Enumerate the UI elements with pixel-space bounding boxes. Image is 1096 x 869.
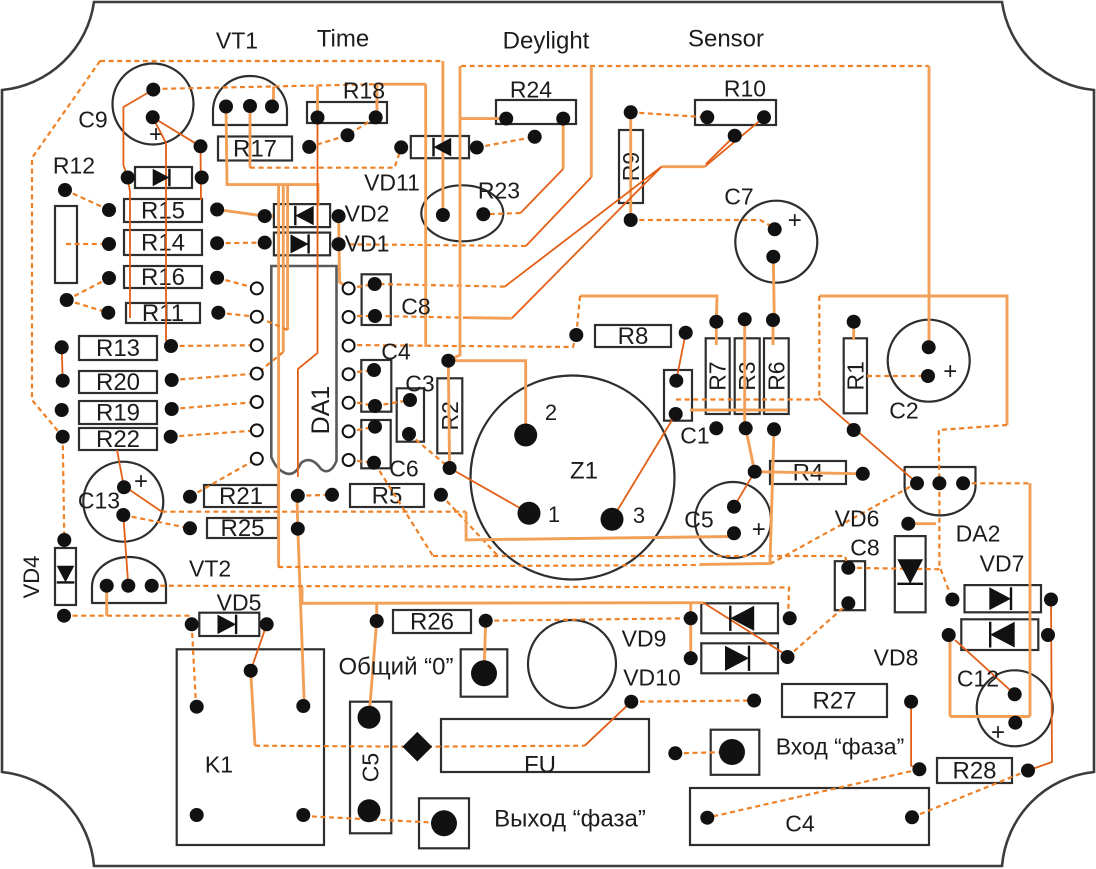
svg-text:R25: R25 — [220, 515, 264, 542]
svg-text:C8: C8 — [401, 293, 430, 319]
svg-text:VD5: VD5 — [217, 589, 262, 615]
svg-text:VD6: VD6 — [835, 505, 880, 531]
svg-text:+: + — [943, 358, 957, 385]
svg-text:R8: R8 — [618, 323, 649, 350]
svg-text:VT1: VT1 — [216, 27, 258, 53]
svg-text:VD9: VD9 — [622, 625, 667, 651]
svg-text:Time: Time — [317, 26, 369, 53]
svg-text:C9: C9 — [78, 106, 107, 132]
svg-text:Общий “0”: Общий “0” — [339, 654, 454, 681]
svg-text:+: + — [788, 207, 802, 234]
svg-text:+: + — [134, 468, 148, 495]
svg-text:+: + — [991, 719, 1005, 746]
svg-text:R1: R1 — [842, 361, 868, 390]
svg-text:+: + — [752, 516, 766, 543]
svg-text:K1: K1 — [205, 751, 233, 777]
svg-text:R13: R13 — [96, 335, 140, 362]
svg-text:R15: R15 — [141, 198, 185, 225]
svg-text:DA2: DA2 — [956, 520, 1001, 546]
svg-text:C3: C3 — [405, 370, 434, 396]
svg-text:R19: R19 — [96, 400, 140, 427]
svg-text:R23: R23 — [478, 177, 520, 203]
svg-text:C5: C5 — [684, 506, 713, 532]
svg-text:C1: C1 — [680, 422, 709, 448]
svg-text:2: 2 — [545, 400, 557, 425]
svg-text:VD10: VD10 — [623, 664, 681, 690]
svg-text:R21: R21 — [219, 483, 263, 510]
svg-text:VD7: VD7 — [980, 550, 1025, 576]
svg-text:R28: R28 — [952, 758, 996, 785]
svg-text:R26: R26 — [410, 609, 454, 636]
svg-text:R18: R18 — [343, 77, 385, 103]
svg-text:R27: R27 — [812, 688, 856, 715]
svg-text:C6: C6 — [389, 455, 418, 481]
svg-text:Deylight: Deylight — [503, 28, 590, 55]
svg-text:R12: R12 — [53, 152, 95, 178]
svg-text:R6: R6 — [763, 361, 789, 390]
svg-text:R5: R5 — [372, 483, 403, 510]
svg-text:Выход “фаза”: Выход “фаза” — [494, 806, 646, 833]
svg-text:R24: R24 — [510, 76, 552, 102]
svg-text:Sensor: Sensor — [688, 26, 764, 53]
svg-text:R17: R17 — [233, 136, 277, 163]
svg-text:C5: C5 — [358, 753, 384, 782]
svg-text:C13: C13 — [78, 487, 120, 513]
svg-text:C7: C7 — [724, 183, 753, 209]
svg-text:R11: R11 — [142, 300, 184, 327]
svg-text:R22: R22 — [96, 426, 140, 453]
svg-text:FU: FU — [524, 752, 556, 779]
svg-text:VD1: VD1 — [345, 230, 390, 256]
svg-text:3: 3 — [633, 503, 645, 528]
svg-text:VD8: VD8 — [874, 644, 919, 670]
svg-text:R14: R14 — [141, 230, 185, 257]
svg-text:Вход “фаза”: Вход “фаза” — [776, 733, 905, 759]
svg-text:C2: C2 — [889, 397, 918, 423]
svg-text:VD2: VD2 — [345, 200, 390, 226]
svg-text:VT2: VT2 — [189, 555, 231, 581]
svg-text:R16: R16 — [141, 264, 185, 291]
svg-text:Z1: Z1 — [570, 458, 598, 485]
svg-text:C4: C4 — [785, 810, 815, 836]
svg-text:DA1: DA1 — [307, 386, 335, 435]
svg-text:1: 1 — [548, 502, 560, 527]
svg-text:R7: R7 — [705, 361, 731, 390]
svg-text:R10: R10 — [724, 75, 766, 101]
svg-text:C8: C8 — [850, 534, 879, 560]
svg-text:C12: C12 — [957, 665, 999, 691]
svg-text:VD11: VD11 — [364, 169, 420, 195]
svg-text:C4: C4 — [381, 338, 411, 364]
svg-text:R3: R3 — [734, 361, 760, 390]
svg-text:VD4: VD4 — [19, 556, 44, 599]
svg-text:R20: R20 — [96, 369, 140, 396]
